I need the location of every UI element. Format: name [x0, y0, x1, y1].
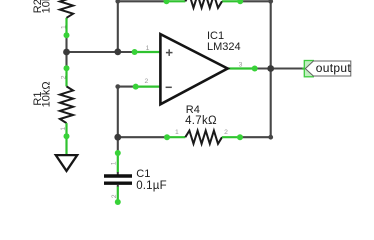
wire output node to R4 vertical [270, 69, 272, 138]
svg-text:1: 1 [146, 45, 150, 52]
resistor R4 pin lead 2 [222, 136, 241, 138]
resistor R1 pin lead (pin 1) [65, 123, 67, 154]
wire R1 top stub [65, 52, 67, 68]
wire inverting-input vertical [117, 87, 119, 138]
resistor R3 (top, cut off) pin leads [165, 0, 241, 2]
svg-text:LM324: LM324 [207, 41, 241, 53]
svg-text:10kΩ: 10kΩ [40, 81, 52, 107]
svg-text:1: 1 [60, 25, 67, 29]
svg-text:1: 1 [60, 127, 67, 131]
op-amp U1 triangle [160, 34, 227, 104]
wire left vertical (top corner to node B) [117, 1, 119, 52]
svg-text:C1: C1 [136, 168, 150, 180]
op-amp IC1 pin3 output lead [228, 67, 255, 69]
svg-text:1: 1 [175, 129, 179, 136]
resistor R4 zigzag [185, 131, 222, 144]
minus sign [166, 86, 172, 88]
bend dot top-right [268, 0, 273, 4]
wire right vertical (top corner to output node) [270, 1, 272, 68]
svg-text:output: output [316, 61, 352, 75]
wire node A to op-amp pin1 [67, 51, 135, 53]
net label output: flag outline [305, 61, 351, 76]
svg-text:1: 1 [111, 161, 118, 165]
svg-text:2: 2 [145, 78, 149, 85]
wire node C to R4 left [118, 136, 166, 138]
svg-text:10kΩ: 10kΩ [40, 0, 52, 13]
op-amp IC1 pin2 lead [136, 85, 160, 87]
node B junction [114, 48, 121, 55]
node A junction [63, 49, 70, 56]
plus sign [166, 49, 173, 56]
resistor R2 zigzag [60, 0, 73, 18]
ground symbol [56, 155, 77, 171]
net label output: green pad [304, 61, 313, 77]
wire inverting-input horizontal [118, 86, 136, 88]
resistor R4 pin lead 1 [165, 136, 185, 138]
op-amp IC1 pin1 lead [135, 51, 160, 53]
svg-text:2: 2 [111, 194, 118, 198]
svg-text:2: 2 [60, 75, 67, 79]
svg-text:3: 3 [239, 61, 243, 68]
net label output pin nub [302, 67, 305, 69]
capacitor C1 pin lead 2 [117, 184, 119, 187]
bend dot top-left [115, 0, 120, 4]
bend dot inverting corner [115, 84, 120, 89]
svg-text:2: 2 [224, 129, 228, 136]
bend dot R4 right corner [268, 135, 273, 140]
wire output segment [255, 67, 305, 69]
svg-text:4.7kΩ: 4.7kΩ [185, 115, 217, 127]
node C junction [114, 134, 121, 141]
svg-text:0.1µF: 0.1µF [136, 180, 167, 192]
capacitor C1 pin lead 1 [117, 152, 119, 173]
resistor R1 pin lead (pin 2) [65, 67, 67, 87]
wire top-right horizontal [241, 0, 270, 2]
svg-text:IC1: IC1 [207, 30, 224, 42]
capacitor C1 plates [104, 174, 132, 177]
wire node C to C1 [117, 137, 119, 153]
wire R2 bottom stub [65, 36, 67, 53]
resistor R2 pin lead (pin 1) [65, 18, 67, 37]
output node junction [267, 65, 274, 72]
wire R4 right to corner [241, 136, 270, 138]
resistor R3 zigzag (top, cut off) [185, 0, 222, 8]
resistor R1 zigzag [60, 86, 73, 123]
wire top-left horizontal (feedback net) [118, 0, 166, 2]
